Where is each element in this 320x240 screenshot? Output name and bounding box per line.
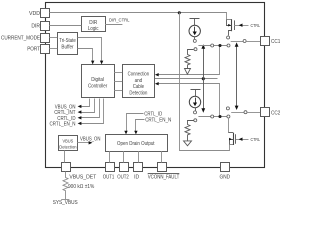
wire VBUS_ON output with arrow xyxy=(55,99,90,111)
pin OUT2 xyxy=(117,163,129,181)
pin GND xyxy=(220,163,231,181)
wire CRTL_EN_N stub into Open Drain Output xyxy=(134,117,171,134)
wire Open Drain Output to VCONN_FAULT xyxy=(161,151,163,163)
wire Open Drain Output to OUT2 xyxy=(123,151,125,163)
pin OUT1 xyxy=(103,163,115,181)
pin PORT xyxy=(27,45,49,54)
pin CC1 xyxy=(261,37,281,46)
svg-text:VCONN_FAULT: VCONN_FAULT xyxy=(148,175,180,181)
power stub T2 for current source I2 xyxy=(191,90,201,97)
wire CC1 pin bar xyxy=(231,40,260,43)
svg-text:CC2: CC2 xyxy=(271,110,280,116)
wire Open Drain Output to OUT1 xyxy=(109,151,111,163)
wire DIR pin to DIR Logic xyxy=(49,25,81,27)
svg-text:Detection: Detection xyxy=(129,91,147,97)
wire gate CTRL2 label xyxy=(236,137,261,142)
block Digital Controller xyxy=(82,65,115,98)
block Open Drain Output xyxy=(106,135,168,152)
svg-text:Controller: Controller xyxy=(88,84,108,90)
svg-text:VBUS_DET: VBUS_DET xyxy=(69,175,96,181)
wire VDD rail to PMOS Q1 xyxy=(50,13,232,20)
wire gate CTRL1 label xyxy=(234,23,260,28)
resistor R1 900k external xyxy=(63,172,95,200)
transistor Q1 PMOS xyxy=(227,19,235,39)
svg-text:Open Drain Output: Open Drain Output xyxy=(117,141,155,147)
wire VBUS Detection to VBUS_DET pin xyxy=(64,150,66,162)
svg-text:and: and xyxy=(135,78,143,84)
transistor Q2 PMOS xyxy=(229,118,236,145)
svg-text:CC1: CC1 xyxy=(271,39,280,45)
wire Digital Controller to Connection box link 2 xyxy=(114,81,122,83)
terminal circle I1 output xyxy=(193,37,196,43)
terminal circle I2 output xyxy=(194,108,197,114)
node SYS_VBUS terminal xyxy=(53,200,79,207)
svg-text:CRTL_EN_N: CRTL_EN_N xyxy=(50,122,76,128)
current source I2 xyxy=(189,96,200,107)
contact circle Rd1 top xyxy=(194,48,197,51)
wire CRTL_EN_N output with arrow xyxy=(50,99,104,128)
resistor Rd2 xyxy=(185,121,194,141)
svg-text:DIR_CTRL: DIR_CTRL xyxy=(109,18,130,24)
svg-text:OUT1: OUT1 xyxy=(103,175,115,181)
pin VDD xyxy=(29,9,50,18)
wire control line C to CC2 switch xyxy=(155,82,220,117)
svg-text:Logic: Logic xyxy=(88,26,99,32)
svg-text:SYS_VBUS: SYS_VBUS xyxy=(53,200,79,206)
wire CRTL_INT output with arrow xyxy=(54,99,94,117)
svg-text:Buffer: Buffer xyxy=(61,45,74,51)
wire VDD loop to PMOS Q2 source xyxy=(180,13,234,151)
svg-text:Detection: Detection xyxy=(59,144,76,150)
block VBUS Detection xyxy=(59,136,78,151)
pin VCONN_FAULT (active low, overbar) xyxy=(148,163,180,181)
svg-text:900 kΩ ±1%: 900 kΩ ±1% xyxy=(68,184,95,190)
svg-text:Connection: Connection xyxy=(128,71,150,77)
wire CRTL_ID output with arrow xyxy=(57,99,99,122)
svg-text:DIR: DIR xyxy=(31,24,40,30)
block Tri-State Buffer xyxy=(58,33,78,55)
wire Tri-State output 2 to Digital Controller xyxy=(78,49,95,65)
wire Tri-State output 1 to Digital Controller xyxy=(78,38,104,65)
junction control B node xyxy=(202,77,205,80)
pin DIR xyxy=(31,22,49,31)
pin CC2 xyxy=(261,108,281,117)
svg-text:VDD: VDD xyxy=(29,11,40,17)
svg-text:PORT: PORT xyxy=(27,47,41,53)
svg-text:Tri-State: Tri-State xyxy=(59,38,76,44)
wire Open Drain Output to ID xyxy=(138,151,140,163)
switch SW2a bar line CC2 xyxy=(198,115,230,118)
power stub T1 for current source I1 xyxy=(190,19,200,26)
svg-text:Digital: Digital xyxy=(91,77,104,83)
svg-text:Cable: Cable xyxy=(133,84,144,90)
resistor Rd1 xyxy=(185,50,194,69)
wire CURRENT_MODE pin to Tri-State Buffer xyxy=(49,37,57,39)
chip boundary U1 xyxy=(46,3,265,168)
wire CC2 pin bar xyxy=(231,111,260,114)
pin VBUS_DET xyxy=(62,163,97,181)
wire switch control vertical S1 with arrows xyxy=(201,44,205,112)
junction VDD branch node xyxy=(178,11,181,14)
svg-text:CURRENT_MODE: CURRENT_MODE xyxy=(1,35,40,41)
switch SW1a bar line CC1 xyxy=(198,44,230,47)
contact circle CC2 open throw xyxy=(226,107,229,110)
svg-text:OUT2: OUT2 xyxy=(117,175,129,181)
wire control line A to CC1 switch xyxy=(155,46,220,77)
wire CRTL_ID stub into Open Drain Output xyxy=(124,111,162,134)
block DIR Logic xyxy=(82,17,106,33)
wire Digital Controller to Connection box link 3 xyxy=(114,90,122,92)
svg-text:CTRL: CTRL xyxy=(251,137,261,142)
pin ID xyxy=(134,163,143,181)
contact circle Rd2 xyxy=(194,119,197,122)
svg-text:GND: GND xyxy=(220,175,231,181)
svg-text:VBUS: VBUS xyxy=(63,138,74,144)
svg-text:CTRL: CTRL xyxy=(251,23,261,28)
wire control line B common xyxy=(155,78,218,80)
svg-text:ID: ID xyxy=(134,175,139,181)
wire PORT pin to Tri-State Buffer xyxy=(49,48,57,50)
current source I1 xyxy=(189,25,200,36)
wire VBUS Detection output VBUS_ON stub xyxy=(77,137,101,145)
wire Digital Controller to Connection box link 1 xyxy=(114,72,122,74)
pin CURRENT_MODE xyxy=(1,34,50,43)
block Connection and Cable Detection xyxy=(123,65,155,98)
svg-text:VBUS_ON: VBUS_ON xyxy=(80,137,101,143)
svg-text:CRTL_EN_N: CRTL_EN_N xyxy=(145,117,171,123)
wire switch control vertical S2 with arrows xyxy=(235,42,239,110)
ground GND2 xyxy=(184,141,192,146)
wire DIR_CTRL stub xyxy=(105,18,130,25)
ground GND1 xyxy=(185,69,191,75)
